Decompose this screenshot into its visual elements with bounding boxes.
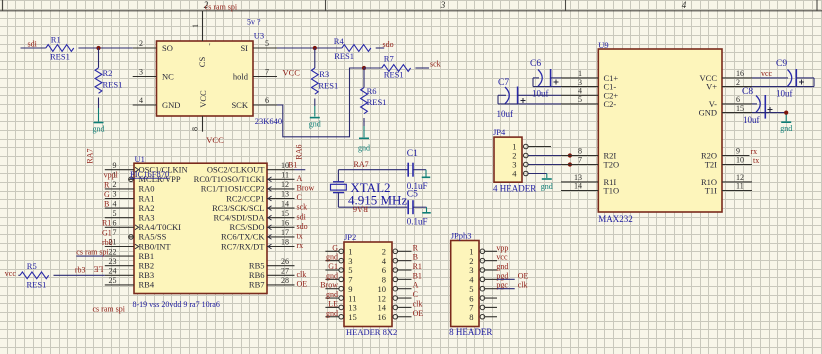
net label rb3	[75, 266, 86, 275]
U3 pin 3 NC stub	[133, 68, 157, 77]
net label sdo (U1 pin 16)	[297, 222, 308, 231]
net label 5v ?	[247, 18, 261, 27]
sheet zone number 4	[682, 0, 687, 10]
U1 right pin numbers	[281, 161, 289, 285]
junction node U9 pin8	[568, 153, 572, 157]
wire R7 to sck	[415, 67, 429, 69]
resistor R3 RES1	[311, 48, 338, 94]
svg-text:gnd: gnd	[326, 253, 338, 262]
svg-text:5v ?: 5v ?	[247, 18, 261, 27]
svg-text:14: 14	[574, 182, 582, 191]
svg-text:sck: sck	[297, 203, 308, 212]
svg-text:gnd: gnd	[326, 309, 338, 318]
wire sdi to R1	[21, 47, 46, 49]
svg-text:R7: R7	[384, 54, 394, 64]
svg-text:HEADER 8X2: HEADER 8X2	[346, 327, 397, 337]
svg-text:15: 15	[348, 312, 357, 322]
svg-text:GND: GND	[699, 108, 717, 118]
svg-text:R6: R6	[367, 86, 377, 96]
svg-text:LE: LE	[94, 265, 104, 274]
svg-text:NC: NC	[162, 71, 174, 81]
U1 left pin numbers	[109, 161, 117, 285]
net label RA7 (vertical, U1 pin 9)	[86, 148, 95, 163]
U1 clock marks	[135, 167, 272, 249]
JP4 type 4 HEADER	[493, 184, 536, 194]
svg-text:12: 12	[281, 180, 289, 189]
svg-text:vpp: vpp	[496, 243, 508, 252]
sheet border top line	[0, 0, 822, 11]
ground below R6	[358, 138, 370, 152]
svg-text:C: C	[413, 290, 418, 299]
svg-text:1: 1	[578, 69, 582, 78]
net label R1 (JP2 pin 6)	[413, 262, 422, 271]
net label OE (JPph3)	[518, 271, 529, 280]
svg-text:T2O: T2O	[604, 160, 620, 170]
net label gnd (JPph3 pin 3)	[496, 262, 508, 271]
net label clk (JP2 pin 14)	[413, 299, 423, 308]
svg-text:RA5/SS: RA5/SS	[139, 232, 167, 242]
svg-text:R1: R1	[51, 35, 61, 45]
junction node C8/gnd	[784, 111, 788, 115]
svg-text:3: 3	[113, 190, 117, 199]
U1 pin 7 RA5 bubble	[129, 235, 134, 240]
svg-text:RA6: RA6	[295, 144, 304, 159]
IC U9 MAX232 body	[598, 49, 722, 212]
svg-text:RC0/T1OSO/T1CKI: RC0/T1OSO/T1CKI	[194, 174, 265, 184]
wire C7 left to U9 pin5	[498, 95, 561, 104]
net label pgd (JPph3 pin 4)	[496, 271, 508, 280]
JPph3 designator	[451, 231, 472, 241]
wire R1 to U3 pin 2	[78, 47, 132, 49]
svg-text:tx: tx	[297, 232, 303, 241]
net label cs ram spi (top)	[205, 3, 238, 12]
svg-text:gnd: gnd	[541, 182, 553, 191]
svg-text:27: 27	[281, 267, 289, 276]
svg-text:rx: rx	[297, 241, 304, 250]
svg-text:22: 22	[109, 247, 117, 256]
svg-text:RB2: RB2	[139, 261, 155, 271]
wire RA6 net (crystal bottom)	[338, 193, 407, 208]
svg-text:23: 23	[109, 257, 117, 266]
capacitor C1	[407, 149, 428, 191]
svg-text:vcc: vcc	[761, 69, 773, 78]
svg-text:3: 3	[440, 0, 446, 10]
svg-text:R: R	[413, 243, 419, 252]
svg-text:OE: OE	[518, 271, 529, 280]
svg-text:25: 25	[109, 276, 117, 285]
svg-text:RA2: RA2	[139, 203, 155, 213]
svg-text:RC6/TX/CK: RC6/TX/CK	[221, 232, 265, 242]
svg-text:RC1/T1OSI/CCP2: RC1/T1OSI/CCP2	[201, 184, 265, 194]
wire U9 pin16 to C9	[752, 77, 788, 79]
net label gnd (JP2 pin 11)	[326, 290, 338, 299]
wire U9 pin15 to gnd	[752, 113, 786, 122]
net label gnd (JP2 pin 7)	[326, 271, 338, 280]
wire pgc	[497, 288, 515, 290]
JPph3 type 8 HEADER	[449, 327, 492, 337]
svg-text:G1: G1	[328, 262, 338, 271]
wire JP4 pin3 to U9 pin7	[528, 164, 561, 166]
wire C7 right to U9 pin4	[518, 94, 561, 96]
ground at C1	[422, 176, 431, 178]
net label Brow (U1 pin 12)	[297, 184, 315, 193]
wire R4 to sdo	[376, 47, 385, 49]
svg-text:R1: R1	[413, 262, 422, 271]
svg-text:vcc: vcc	[496, 253, 508, 262]
svg-text:sck: sck	[430, 60, 441, 69]
svg-text:CS: CS	[197, 57, 207, 68]
U1 pin names	[139, 165, 266, 290]
svg-text:4: 4	[113, 199, 117, 208]
U3 pin 7 hold stub	[253, 68, 277, 77]
resistor R2 RES1	[95, 48, 122, 93]
svg-text:6: 6	[736, 95, 740, 104]
svg-text:vcc: vcc	[5, 269, 17, 278]
svg-text:5: 5	[265, 39, 269, 48]
svg-text:gnd: gnd	[326, 271, 338, 280]
net label cs ram spi (lower)	[93, 305, 126, 314]
net label VCC (hold pin)	[283, 68, 301, 78]
capacitor C7 10uf	[497, 78, 526, 119]
net label R1	[102, 219, 111, 228]
resistor R7 RES1	[364, 54, 411, 80]
svg-text:cs ram spi: cs ram spi	[76, 247, 109, 256]
U3 pin 5 SI stub	[253, 39, 277, 48]
svg-text:U1: U1	[135, 154, 145, 164]
svg-text:V+: V+	[706, 82, 717, 92]
svg-text:clk: clk	[518, 281, 528, 290]
svg-text:2: 2	[736, 78, 740, 87]
svg-text:4 HEADER: 4 HEADER	[493, 184, 536, 194]
net label pgc (JPph3 pin 5)	[496, 281, 508, 290]
svg-text:GND: GND	[162, 100, 180, 110]
svg-text:T1I: T1I	[705, 186, 717, 196]
net label RA6 (vertical)	[295, 144, 304, 159]
svg-text:6: 6	[113, 219, 117, 228]
svg-text:B1: B1	[413, 271, 422, 280]
svg-text:PIC16F870: PIC16F870	[130, 169, 169, 179]
svg-text:B: B	[104, 200, 109, 209]
svg-text:17: 17	[281, 228, 289, 237]
IC U1 PIC16F870 body	[134, 163, 267, 293]
svg-text:16: 16	[281, 219, 289, 228]
net label cs ram spi (pin22)	[76, 247, 109, 256]
svg-text:VCC: VCC	[206, 135, 224, 145]
svg-text:7: 7	[578, 156, 582, 165]
svg-text:R: R	[104, 180, 110, 189]
U9 right pin numbers	[736, 69, 744, 191]
net label clk (U1 pin 27)	[297, 270, 307, 279]
net label sdi	[28, 40, 38, 49]
ground at C5	[422, 212, 431, 214]
svg-text:A: A	[297, 174, 303, 183]
svg-text:RES1: RES1	[367, 97, 387, 107]
svg-text:rb0: rb0	[102, 238, 113, 247]
net label G1 (JP2 pin 5)	[328, 262, 338, 271]
svg-text:B: B	[413, 253, 418, 262]
svg-text:C2-: C2-	[604, 99, 617, 109]
svg-text:gnd: gnd	[780, 124, 792, 133]
net label clk (JPph3)	[518, 281, 528, 290]
U1 pin 1 MCLR bubble	[129, 177, 134, 182]
net label C (JP2 pin 12)	[413, 290, 418, 299]
JP2 right pin stubs	[393, 249, 412, 319]
svg-text:5: 5	[113, 209, 117, 218]
net label LE (JP2 pin 13)	[328, 299, 338, 308]
IC U3 23K640 body	[157, 41, 254, 116]
net label tx (U1 pin 17)	[297, 232, 303, 241]
svg-text:clk: clk	[297, 270, 307, 279]
svg-text:1: 1	[191, 24, 200, 28]
svg-text:VCC: VCC	[198, 90, 208, 108]
svg-text:14: 14	[281, 199, 289, 208]
wire SCK route	[277, 68, 364, 137]
svg-text:2: 2	[139, 39, 143, 48]
svg-text:6: 6	[265, 96, 269, 105]
svg-text:VCC: VCC	[283, 68, 301, 78]
svg-text:RES1: RES1	[318, 80, 338, 90]
svg-text:RA7: RA7	[354, 160, 369, 169]
svg-text:26: 26	[281, 257, 289, 266]
U3 pin 6 SCK stub	[253, 96, 277, 105]
net label B1 (JP2 pin 8)	[413, 271, 422, 280]
ground below R2	[93, 123, 105, 134]
ground at C8	[780, 122, 792, 133]
svg-text:RB7: RB7	[249, 280, 265, 290]
U9 designator	[598, 40, 608, 50]
net label gnd (JP2 pin 15)	[326, 309, 338, 318]
svg-text:9: 9	[736, 147, 740, 156]
svg-text:G: G	[104, 190, 110, 199]
svg-text:G1: G1	[102, 228, 112, 237]
U3 pin 2 SO stub	[133, 39, 157, 48]
svg-text:C1: C1	[407, 149, 418, 159]
wire U3 SI to junction	[277, 47, 342, 49]
net label sdi (U1 pin 15)	[297, 212, 307, 221]
U3 designator	[254, 31, 264, 41]
wire U9 pin6 to C8	[752, 103, 757, 105]
sheet zone number 2	[204, 0, 209, 10]
svg-text:23K640: 23K640	[255, 116, 282, 126]
capacitor C6 10uf	[530, 59, 559, 98]
svg-text:LE: LE	[328, 299, 338, 308]
wire C9 loop to U9 pin2	[752, 78, 814, 87]
svg-text:RA1: RA1	[139, 193, 155, 203]
net label OE (JP2 pin 16)	[413, 309, 424, 318]
sheet zone number 3	[440, 0, 446, 10]
svg-text:G: G	[332, 243, 338, 252]
svg-text:gnd: gnd	[496, 262, 508, 271]
svg-text:R2: R2	[103, 68, 113, 78]
JP2 pin numbers	[348, 247, 387, 322]
svg-text:MAX232: MAX232	[598, 214, 633, 224]
U3 pin names	[162, 42, 249, 110]
net label vpp (JPph3 pin 1)	[496, 243, 508, 252]
svg-text:U9: U9	[598, 40, 608, 50]
U1 right pin stubs	[267, 170, 295, 285]
svg-text:3: 3	[578, 78, 582, 87]
U1 part number PIC16F870	[130, 169, 169, 179]
net label LE (rotated)	[94, 265, 104, 274]
junction node U9 pin7	[568, 162, 572, 166]
net label rx (U1 pin 18)	[297, 241, 304, 250]
net label sdo	[383, 40, 394, 49]
wire C5 to gnd	[413, 207, 427, 212]
svg-text:28: 28	[281, 276, 289, 285]
svg-text:RB1: RB1	[139, 251, 155, 261]
ground below R3	[309, 118, 321, 129]
U3 pin 8 VCC stub (bottom)	[191, 116, 203, 132]
U9 left pin numbers	[574, 69, 582, 191]
svg-text:3: 3	[139, 68, 143, 77]
svg-text:U3: U3	[254, 31, 264, 41]
svg-text:T1O: T1O	[604, 186, 620, 196]
wire C6 left to U9 pin3	[533, 78, 561, 87]
svg-text:RA0: RA0	[139, 184, 155, 194]
capacitor C9 10uf	[776, 59, 804, 98]
svg-text:4: 4	[139, 96, 143, 105]
svg-text:R5: R5	[27, 261, 37, 271]
svg-text:11: 11	[281, 171, 289, 180]
svg-text:2: 2	[113, 180, 117, 189]
net label vppl	[104, 171, 119, 180]
junction node R6/R7	[362, 66, 366, 70]
svg-text:10uf: 10uf	[497, 109, 514, 119]
wire R2 to gnd	[98, 98, 100, 122]
wire JP4 pin4 to gnd	[528, 174, 547, 179]
svg-text:RB0/INT: RB0/INT	[139, 241, 172, 251]
svg-text:RES1: RES1	[27, 280, 47, 290]
svg-text:RC5/SDO: RC5/SDO	[230, 222, 265, 232]
svg-text:sdo: sdo	[297, 222, 308, 231]
svg-text:24: 24	[109, 267, 117, 276]
wire pin22 extension	[76, 255, 105, 257]
svg-text:SO: SO	[162, 43, 173, 53]
svg-text:RB3: RB3	[139, 270, 155, 280]
net label Brow (JP2 pin 9)	[320, 281, 338, 290]
resistor R1 RES1	[46, 35, 74, 62]
net label A (JP2 pin 10)	[413, 281, 419, 290]
JPph3 pin stubs	[480, 249, 497, 319]
net label B	[104, 200, 109, 209]
capacitor C5	[407, 190, 428, 227]
svg-text:gnd: gnd	[93, 125, 105, 134]
svg-text:9: 9	[113, 161, 117, 170]
JP4 designator	[493, 127, 506, 137]
wire pgd	[497, 278, 515, 280]
svg-text:B1: B1	[288, 161, 297, 170]
net label G	[104, 190, 110, 199]
U3 pin 4 GND stub	[133, 96, 157, 105]
svg-text:0.1uF: 0.1uF	[407, 217, 428, 227]
svg-text:JP2: JP2	[344, 232, 356, 242]
svg-text:RES1: RES1	[334, 51, 354, 61]
net label rb0	[102, 238, 113, 247]
resistor R6 RES1	[361, 68, 387, 114]
svg-text:RES1: RES1	[384, 70, 404, 80]
ground at JP4	[541, 179, 553, 191]
svg-text:13: 13	[281, 190, 289, 199]
svg-text:16: 16	[378, 312, 387, 322]
svg-text:vppl: vppl	[104, 171, 119, 180]
net label B (JP2 pin 4)	[413, 253, 418, 262]
svg-text:A: A	[413, 281, 419, 290]
connector JP4 body	[494, 137, 522, 182]
svg-text:rb3: rb3	[75, 266, 86, 275]
svg-text:Brow: Brow	[320, 281, 338, 290]
svg-text:clk: clk	[413, 299, 423, 308]
svg-text:RA6: RA6	[353, 205, 368, 214]
net label B1	[288, 161, 297, 170]
svg-text:C8: C8	[742, 87, 753, 97]
svg-text:R3: R3	[319, 69, 329, 79]
svg-text:C7: C7	[498, 78, 509, 88]
svg-text:7: 7	[265, 68, 269, 77]
wire R6 to gnd	[363, 118, 365, 137]
wire C1 to gnd	[413, 170, 426, 177]
svg-text:sdi: sdi	[28, 40, 38, 49]
svg-text:10uf: 10uf	[743, 115, 760, 125]
U1 note 8-19 vss	[133, 300, 220, 309]
net label RA7 (crystal)	[354, 160, 369, 169]
svg-text:OE: OE	[297, 280, 308, 289]
svg-text:15: 15	[736, 104, 744, 113]
net label R	[104, 180, 110, 189]
svg-text:RB6: RB6	[249, 270, 265, 280]
svg-text:R4: R4	[334, 36, 345, 46]
svg-text:Brow: Brow	[297, 184, 315, 193]
svg-text:11: 11	[736, 182, 744, 191]
net label A (U1 pin 11)	[297, 174, 303, 183]
svg-text:RC3/SCK/SCL: RC3/SCK/SCL	[212, 203, 264, 213]
svg-text:10uf: 10uf	[532, 88, 549, 98]
svg-text:RB4: RB4	[139, 280, 155, 290]
svg-text:5: 5	[578, 95, 582, 104]
net label gnd (JP2 pin 3)	[326, 253, 338, 262]
svg-text:OSC2/CLKOUT: OSC2/CLKOUT	[207, 165, 265, 175]
wire JP4 pin1	[528, 146, 551, 148]
svg-text:15: 15	[281, 209, 289, 218]
svg-text:8: 8	[191, 127, 200, 131]
net label R (JP2 pin 2)	[413, 243, 419, 252]
svg-text:8: 8	[578, 147, 582, 156]
svg-text:8: 8	[469, 312, 473, 322]
svg-text:SCK: SCK	[231, 100, 248, 110]
svg-text:RES1: RES1	[103, 80, 123, 90]
svg-text:RA4/T0CKI: RA4/T0CKI	[139, 222, 182, 232]
JP4 pin numbers	[512, 142, 517, 179]
U1 designator	[135, 154, 145, 164]
svg-text:8 HEADER: 8 HEADER	[449, 327, 492, 337]
svg-text:cs ram spi: cs ram spi	[93, 305, 126, 314]
svg-text:gnd: gnd	[358, 143, 370, 152]
svg-text:T2I: T2I	[705, 160, 717, 170]
svg-text:OE: OE	[413, 309, 424, 318]
wire RA7 net (crystal top)	[338, 170, 408, 182]
svg-text:10uf: 10uf	[776, 88, 793, 98]
U9 right pin stubs	[722, 78, 752, 191]
wire JP4 pin2 to U9 pin8	[528, 155, 561, 157]
net label VCC (below U3)	[206, 135, 224, 145]
net label G (JP2 pin 1)	[332, 243, 338, 252]
svg-text:RC7/RX/DT: RC7/RX/DT	[221, 241, 265, 251]
JP4 pin circles	[524, 144, 529, 176]
capacitor C8 10uf	[742, 87, 773, 125]
net label sck	[430, 60, 441, 69]
net label vcc (JPph3 pin 2)	[496, 253, 508, 262]
svg-text:16: 16	[736, 69, 744, 78]
connector JPph3 body	[451, 241, 479, 327]
